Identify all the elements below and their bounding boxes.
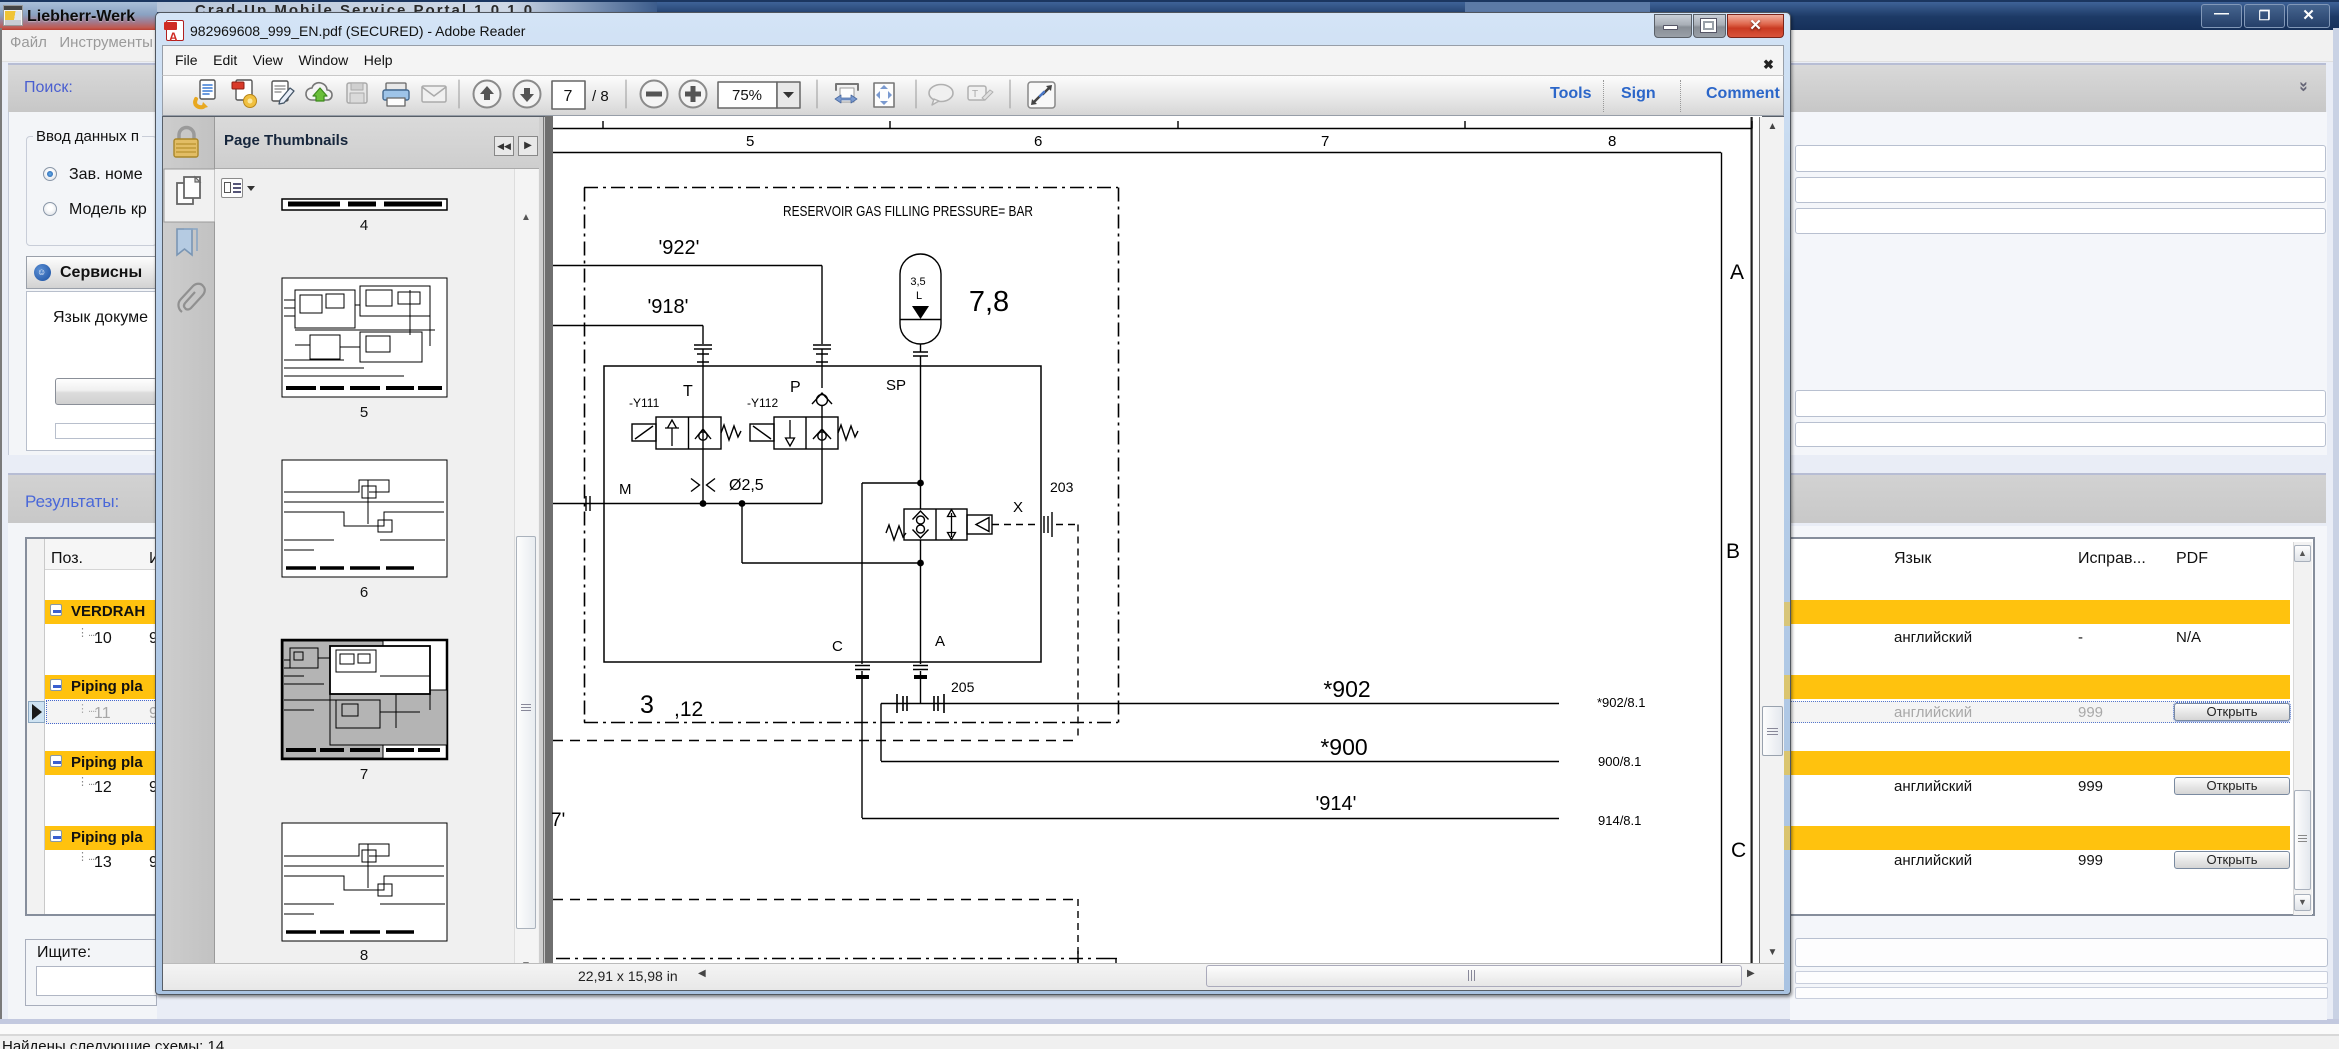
svg-text:Ø2,5: Ø2,5 bbox=[729, 477, 764, 494]
svg-text:P: P bbox=[790, 379, 801, 396]
svg-text:*900: *900 bbox=[1320, 734, 1367, 760]
svg-text:A: A bbox=[1730, 261, 1744, 284]
svg-text:4: 4 bbox=[360, 217, 368, 234]
svg-text:7: 7 bbox=[1321, 133, 1329, 150]
svg-text:7: 7 bbox=[360, 766, 368, 783]
svg-text:/ 8: / 8 bbox=[592, 88, 609, 105]
svg-text:5: 5 bbox=[360, 404, 368, 421]
svg-text:X: X bbox=[1013, 499, 1023, 516]
svg-text:3,5: 3,5 bbox=[910, 276, 925, 288]
svg-text:-Y111: -Y111 bbox=[629, 396, 660, 410]
svg-text:7': 7' bbox=[551, 810, 565, 831]
svg-text:203: 203 bbox=[1050, 479, 1074, 495]
svg-text:75%: 75% bbox=[732, 87, 762, 104]
svg-text:6: 6 bbox=[1034, 133, 1042, 150]
svg-text:*902/8.1: *902/8.1 bbox=[1597, 695, 1645, 710]
svg-text:'918': '918' bbox=[647, 296, 688, 318]
svg-text:SP: SP bbox=[886, 377, 906, 394]
svg-text:'922': '922' bbox=[658, 237, 699, 259]
svg-text:B: B bbox=[1726, 540, 1740, 563]
svg-text:C: C bbox=[832, 638, 843, 655]
svg-text:7,8: 7,8 bbox=[969, 286, 1009, 318]
svg-text:900/8.1: 900/8.1 bbox=[1598, 754, 1641, 769]
svg-text:T: T bbox=[683, 383, 693, 400]
svg-text:'914': '914' bbox=[1315, 793, 1356, 815]
svg-text:L: L bbox=[916, 290, 922, 302]
svg-text:M: M bbox=[619, 481, 632, 498]
svg-text:-Y112: -Y112 bbox=[747, 396, 778, 410]
svg-text:RESERVOIR GAS FILLING PRESSURE: RESERVOIR GAS FILLING PRESSURE= BAR bbox=[783, 203, 1033, 220]
svg-text:7: 7 bbox=[564, 88, 573, 105]
svg-text:,12: ,12 bbox=[674, 698, 703, 721]
svg-text:8: 8 bbox=[360, 947, 368, 964]
svg-text:T: T bbox=[972, 89, 978, 100]
svg-text:5: 5 bbox=[746, 133, 754, 150]
svg-text:C: C bbox=[1731, 839, 1746, 862]
svg-text:6: 6 bbox=[360, 584, 368, 601]
svg-text:914/8.1: 914/8.1 bbox=[1598, 813, 1641, 828]
svg-text:A: A bbox=[935, 633, 945, 650]
svg-text:205: 205 bbox=[951, 679, 975, 695]
svg-text:*902: *902 bbox=[1323, 676, 1370, 702]
svg-text:8: 8 bbox=[1608, 133, 1616, 150]
svg-text:3: 3 bbox=[640, 691, 654, 719]
